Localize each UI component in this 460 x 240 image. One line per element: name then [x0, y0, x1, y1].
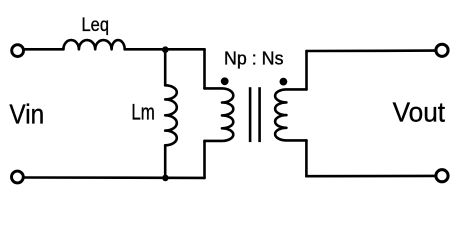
transformer core bar right [258, 87, 261, 142]
polarity dot primary [221, 77, 229, 85]
polarity dot secondary [280, 78, 288, 86]
transformer core bar left [249, 87, 252, 142]
svg-text:Leq: Leq [82, 14, 110, 36]
wire: Leq to node A and transformer primary corner [125, 48, 205, 51]
inductor Lm branch bottom wire [164, 145, 167, 177]
terminal circle top-left [12, 45, 24, 57]
terminal circle bottom-left [12, 171, 24, 183]
svg-text:Lm: Lm [131, 100, 155, 125]
terminal circle top-right [436, 44, 448, 56]
transformer primary winding [205, 88, 234, 140]
wire: secondary to top-right terminal [307, 49, 436, 52]
wire: bottom-left terminal to primary [25, 176, 205, 179]
node B junction dot (bottom) [162, 175, 169, 182]
transformer secondary winding [275, 89, 306, 140]
node A junction dot (top) [162, 46, 169, 53]
inductor Lm [165, 85, 177, 145]
terminal circle bottom-right [436, 170, 448, 182]
wire: secondary to bottom-right terminal [306, 175, 435, 178]
wire: primary top lead drop [203, 49, 206, 88]
svg-text:Np : Ns: Np : Ns [224, 47, 284, 68]
inductor Leq [63, 40, 124, 49]
wire: top-left terminal to Leq [25, 48, 64, 51]
inductor Lm branch top wire [164, 50, 167, 86]
svg-text:Vout: Vout [393, 96, 446, 127]
svg-text:Vin: Vin [9, 99, 44, 130]
wire: secondary top lead rise [305, 51, 308, 89]
wire: primary bottom lead drop [203, 141, 206, 178]
wire: secondary bottom lead drop [305, 140, 308, 176]
